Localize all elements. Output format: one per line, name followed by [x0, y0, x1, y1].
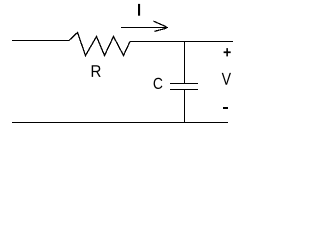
label R (resistor reference): [92, 65, 101, 77]
current arrow: shaft: [121, 27, 168, 28]
label I (current): [138, 4, 140, 16]
wire: capacitor bottom lead (vertical): [184, 90, 185, 122]
wire: top-left horizontal segment: [12, 40, 69, 41]
label + (positive polarity): [224, 48, 231, 56]
capacitor C: bottom plate: [170, 89, 198, 90]
label C (capacitor reference): [154, 78, 163, 89]
label - (negative polarity): [223, 107, 228, 109]
current arrow: upper barb: [154, 21, 167, 27]
label V (voltage across capacitor): [222, 73, 231, 85]
resistor R (zigzag body): [69, 33, 130, 56]
wire: top-right horizontal segment: [130, 41, 233, 42]
wire: bottom horizontal segment: [12, 122, 228, 123]
wire: capacitor top lead (vertical): [184, 41, 185, 83]
capacitor C: top plate: [170, 83, 198, 84]
current arrow: lower barb: [155, 28, 167, 31]
